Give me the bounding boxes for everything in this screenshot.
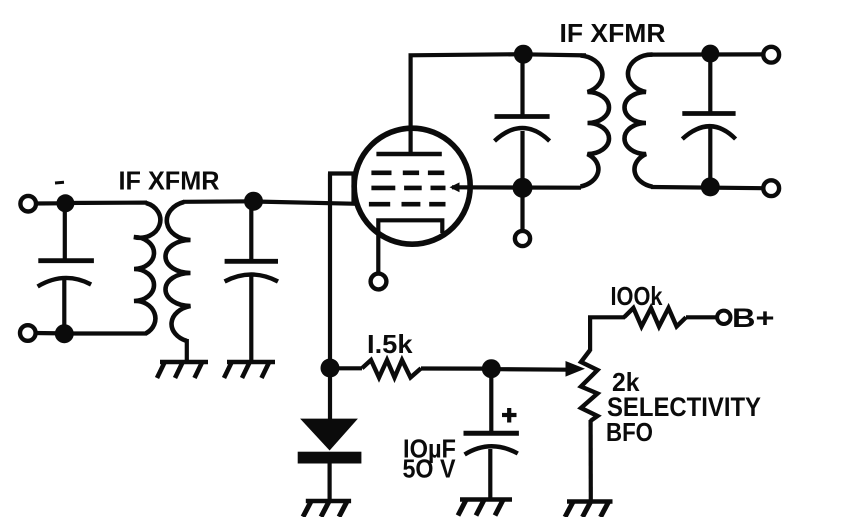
- svg-text:BFO: BFO: [606, 417, 653, 447]
- svg-text:IOOk: IOOk: [611, 281, 663, 311]
- svg-text:IF XFMR: IF XFMR: [119, 166, 220, 196]
- svg-text:IF XFMR: IF XFMR: [560, 18, 666, 48]
- svg-text:B+: B+: [732, 303, 775, 333]
- svg-text:5O V: 5O V: [403, 454, 457, 484]
- svg-text:I.5k: I.5k: [367, 329, 413, 359]
